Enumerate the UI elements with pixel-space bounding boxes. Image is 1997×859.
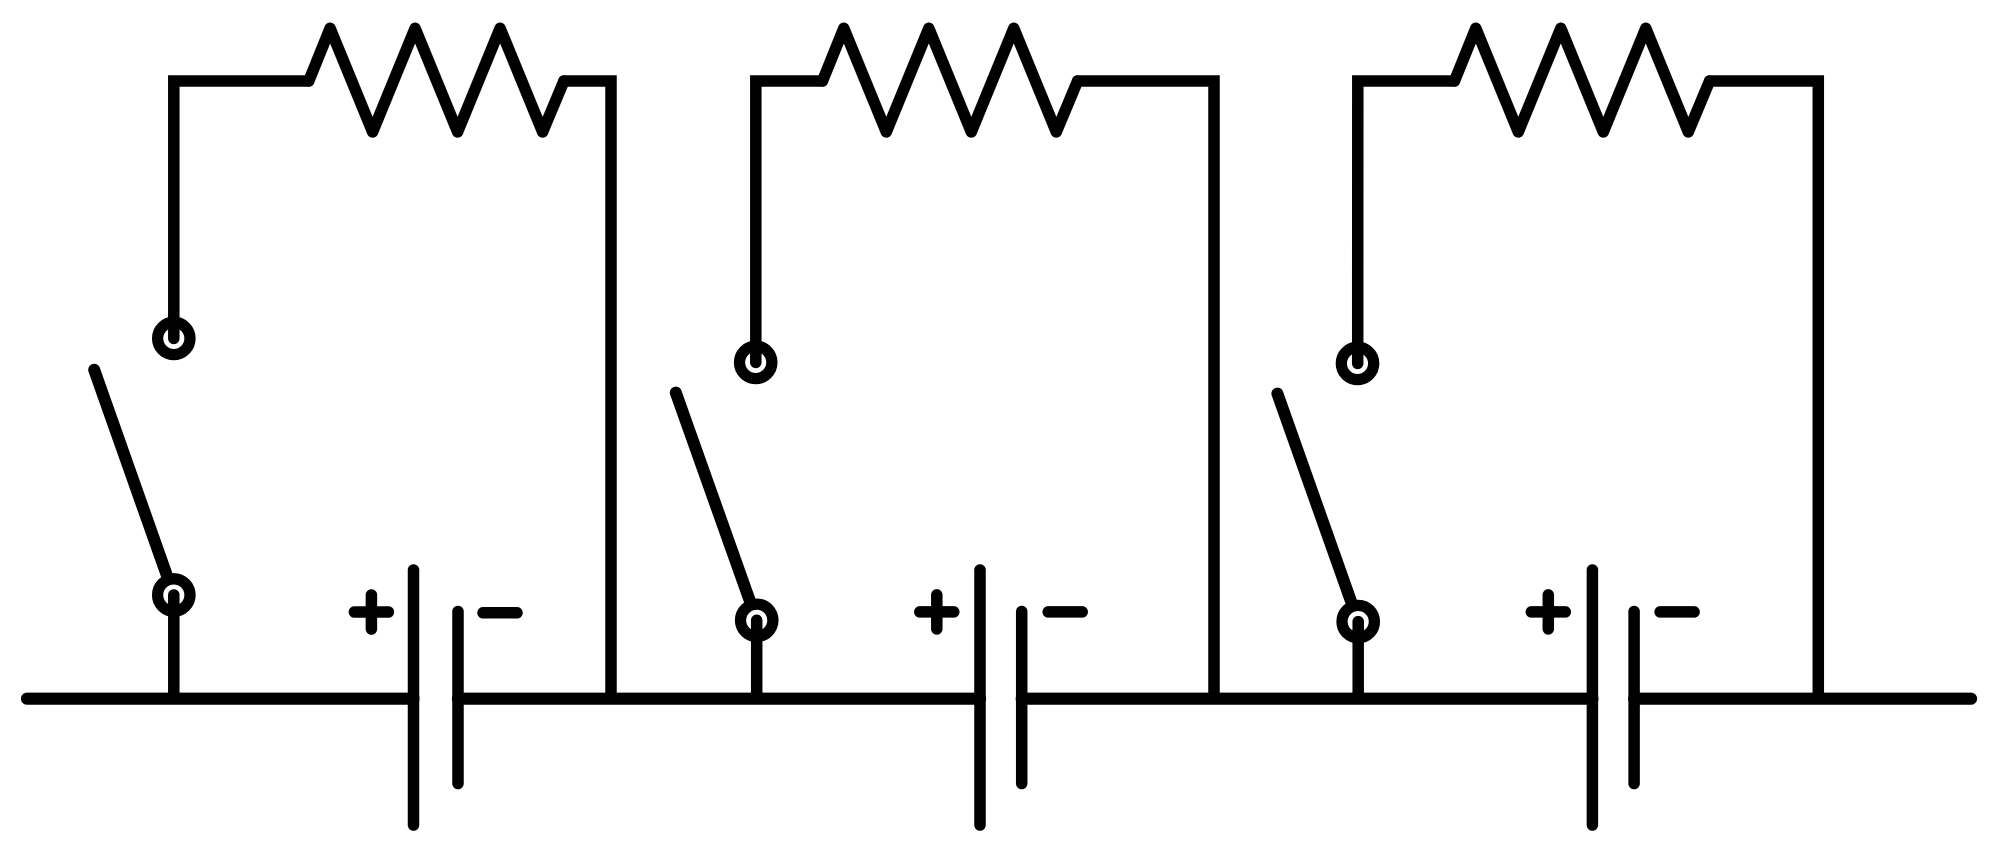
battery B3 plus label: [1531, 595, 1565, 629]
wire: switch S1 bottom terminal down to bottom bus: [168, 595, 180, 699]
switch S2 terminal circles: [740, 346, 773, 636]
battery B3: [1592, 570, 1634, 825]
wire: resistor R1 right lead down to bottom bus: [564, 81, 611, 699]
switch S3 lever: [1277, 394, 1352, 605]
wire: bottom bus segment battery B2 negative plate to battery B3 positive plate: [1022, 693, 1593, 705]
switch S1 terminal circles: [158, 322, 190, 611]
resistor R3: [1455, 28, 1710, 132]
wire: switch S1 top terminal up and over to resistor R1 left lead: [174, 81, 309, 338]
switch S1 lever: [94, 370, 168, 578]
wire: switch S3 bottom terminal down to bottom bus: [1352, 622, 1364, 699]
wire: resistor R3 right lead down to bottom bus: [1710, 81, 1819, 699]
battery B1 plus label: [354, 595, 388, 629]
battery B3 minus label: [1660, 606, 1694, 618]
switch S3 terminal circles: [1341, 347, 1374, 638]
battery B2 plus label: [920, 595, 954, 629]
resistor R1: [309, 28, 564, 132]
resistor R2: [823, 28, 1078, 132]
wire: bottom bus segment left end to battery B1 positive plate: [27, 693, 414, 705]
battery B1 minus label: [483, 607, 517, 619]
switch S2 lever: [676, 393, 751, 604]
wire: switch S3 top terminal up and over to resistor R3 left lead: [1358, 81, 1455, 363]
wire: switch S2 bottom terminal down to bottom bus: [751, 620, 763, 698]
wire: bottom bus segment battery B3 negative plate to right end: [1634, 693, 1971, 705]
wire: bottom bus segment battery B1 negative plate to battery B2 positive plate: [458, 693, 980, 705]
battery B1: [414, 570, 459, 825]
wire: resistor R2 right lead down to bottom bus: [1078, 81, 1214, 699]
wire: switch S2 top terminal up and over to resistor R2 left lead: [756, 81, 823, 362]
battery B2: [980, 570, 1022, 825]
battery B2 minus label: [1048, 606, 1082, 618]
